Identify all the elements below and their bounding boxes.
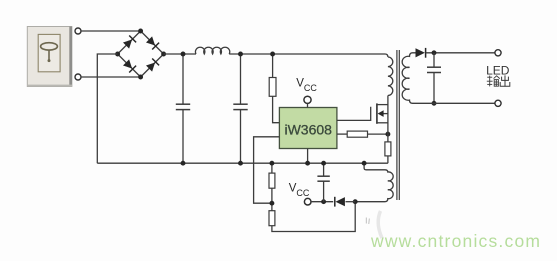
- node bridge bottom: [138, 75, 143, 80]
- capacitor C2: [233, 54, 247, 163]
- wire line-top: [81, 30, 141, 32]
- resistor R4: [385, 142, 391, 156]
- wire VCC to U1: [307, 103, 309, 107]
- wire R6 return: [272, 202, 355, 232]
- transformer T1 auxiliary winding: [355, 163, 393, 202]
- wire D5 to output+: [426, 52, 495, 54]
- wire R4 to rail: [387, 156, 389, 163]
- inductor L1: [195, 47, 229, 54]
- label Chinese output chars: [487, 75, 510, 86]
- wire VCC lower line: [311, 201, 333, 203]
- wire rail bridge-to-L1: [164, 53, 196, 55]
- svg-text:iW3608: iW3608: [284, 122, 332, 138]
- terminal VCC upper: [304, 96, 311, 103]
- input terminal bottom: [75, 74, 81, 80]
- capacitor C3: [317, 163, 329, 202]
- resistor R3: [347, 131, 367, 137]
- wire rail L1-to-transformer: [229, 54, 388, 57]
- AC mains plug symbol: [27, 27, 72, 87]
- capacitor C1: [176, 54, 190, 163]
- wire R1 to U1 VIN: [273, 96, 280, 122]
- wire rail to R1: [272, 54, 274, 78]
- wire output- rail: [414, 102, 495, 104]
- node U1 GND: [305, 161, 310, 166]
- transistor Q1: [377, 96, 388, 142]
- decor: [378, 211, 382, 238]
- node bridge top: [138, 29, 143, 34]
- input terminal top: [75, 28, 81, 34]
- node C3 top: [321, 161, 326, 166]
- transformer T1 secondary winding: [402, 53, 415, 104]
- wire bridge-neg to bottom rail: [97, 54, 117, 163]
- wire U1 CS pin: [337, 133, 347, 135]
- wire rail to R5: [271, 163, 273, 173]
- op-amp U1 iW3608 controller: [279, 108, 337, 149]
- node C1 bottom: [181, 161, 186, 166]
- svg-text:www.cntronics.com: www.cntronics.com: [370, 231, 541, 251]
- node C2 bottom: [238, 161, 243, 166]
- resistor R5: [269, 173, 275, 188]
- diode D6: [335, 197, 345, 207]
- node bridge left: [115, 52, 120, 57]
- node R1 top: [270, 52, 275, 57]
- output terminal plus: [495, 50, 501, 56]
- bridge rectifier BR1: [118, 31, 164, 77]
- diode D5: [416, 48, 426, 58]
- node aux return: [353, 199, 358, 204]
- svg-text:LED: LED: [486, 64, 510, 78]
- capacitor C4: [427, 53, 441, 104]
- node C1 top: [181, 52, 186, 57]
- output terminal minus: [495, 100, 501, 106]
- wire U1 FB to divider: [254, 137, 280, 203]
- node bridge right: [161, 52, 166, 57]
- wire U1 gate drive: [337, 107, 371, 121]
- wire line-bottom: [81, 76, 141, 78]
- wire U1 GND pin: [307, 149, 309, 164]
- node divider mid: [269, 201, 274, 206]
- transformer T1 core: [396, 50, 398, 200]
- resistor R6: [269, 211, 275, 226]
- wire R5 to R6: [271, 188, 273, 211]
- node output cap bottom: [432, 101, 437, 106]
- resistor R1: [269, 78, 276, 97]
- transformer T1 primary winding: [388, 57, 393, 95]
- node VCC cap bottom: [321, 199, 326, 204]
- node aux branch: [362, 161, 367, 166]
- node C2 top: [238, 52, 243, 57]
- terminal VCC lower: [304, 198, 311, 205]
- node source junction: [385, 132, 390, 137]
- wire R3 to source: [368, 133, 388, 135]
- wire D6 to aux: [346, 201, 356, 203]
- node output cap top: [432, 50, 437, 55]
- node R5 top: [269, 161, 274, 166]
- wire bottom rail: [97, 162, 388, 164]
